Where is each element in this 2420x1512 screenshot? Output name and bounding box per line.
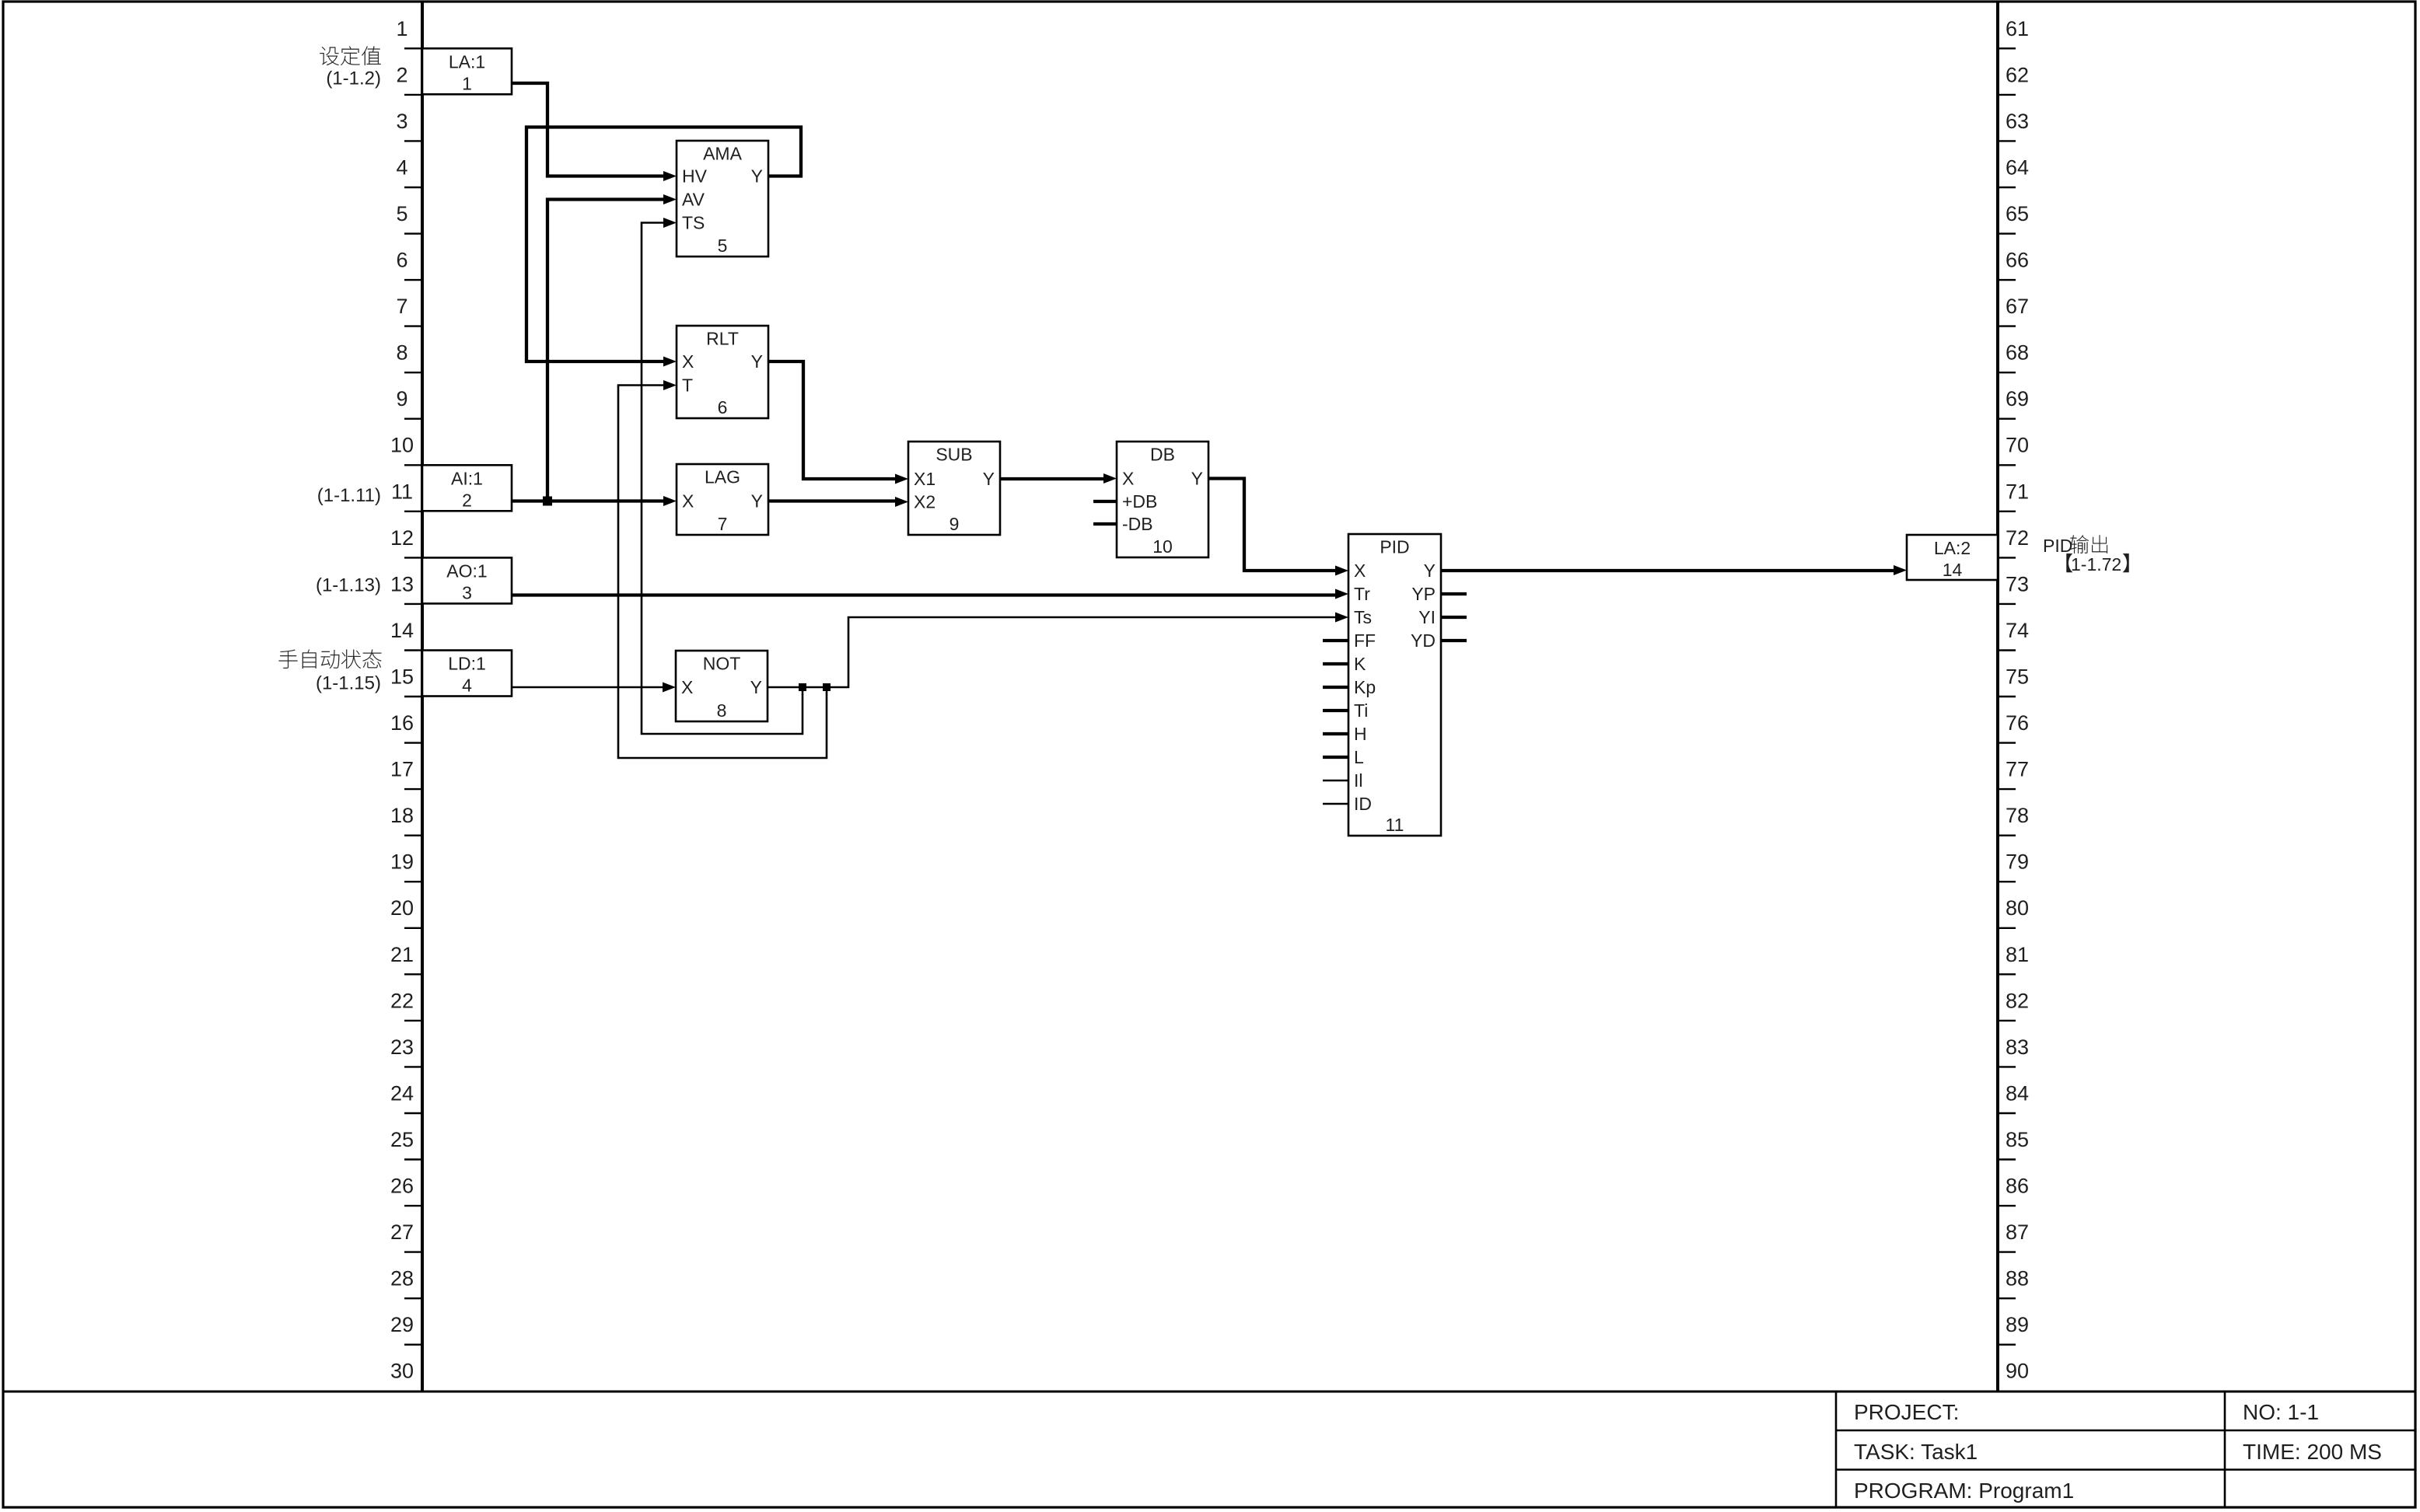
right rail tick row 88/89 (1998, 1297, 2016, 1299)
right rail line (1996, 3, 1999, 1392)
right rail tick row 79/80 (1998, 881, 2016, 882)
svg-text:X: X (1354, 560, 1366, 581)
right rail tick row 77/78 (1998, 788, 2016, 790)
svg-text:26: 26 (390, 1175, 414, 1198)
svg-text:Ts: Ts (1354, 607, 1372, 627)
svg-text:HV: HV (682, 166, 708, 187)
junction AI:1 branch (543, 497, 552, 506)
function block LAG 7 (677, 464, 768, 535)
svg-text:X: X (682, 351, 694, 372)
svg-text:90: 90 (2006, 1360, 2029, 1383)
wire PID.Y -> LA:2 (1441, 569, 1894, 572)
I/O block LA:2 (1907, 535, 1998, 580)
wire SUB.Y -> DB.X (1000, 477, 1103, 480)
svg-text:TIME: 200 MS: TIME: 200 MS (2243, 1440, 2382, 1464)
svg-text:X2: X2 (914, 492, 935, 512)
svg-text:15: 15 (390, 665, 414, 689)
svg-text:Kp: Kp (1354, 677, 1376, 697)
left rail tick row 26/27 (404, 1205, 422, 1206)
svg-text:H: H (1354, 724, 1367, 744)
arrowhead into AMA.TS (663, 218, 677, 228)
svg-text:TASK: Task1: TASK: Task1 (1854, 1440, 1978, 1464)
right rail tick row 80/81 (1998, 927, 2016, 929)
wire LA:1 out -> AMA.HV (512, 83, 663, 176)
svg-text:(1-1.13): (1-1.13) (316, 575, 381, 596)
stub PID.FF unconnected (1323, 639, 1348, 642)
svg-text:LA:1: LA:1 (449, 51, 485, 72)
left rail tick row 3/4 (404, 140, 422, 141)
svg-text:78: 78 (2006, 804, 2029, 827)
svg-text:X: X (682, 491, 694, 512)
arrowhead into LAG.X (663, 496, 677, 506)
left rail tick row 18/19 (404, 834, 422, 836)
right rail tick row 67/68 (1998, 325, 2016, 326)
svg-text:77: 77 (2006, 758, 2029, 781)
svg-text:73: 73 (2006, 572, 2029, 595)
right rail tick row 87/88 (1998, 1251, 2016, 1252)
right rail tick row 89/90 (1998, 1343, 2016, 1345)
svg-text:70: 70 (2006, 434, 2029, 457)
svg-text:16: 16 (390, 711, 414, 735)
svg-text:7: 7 (396, 295, 407, 318)
right rail tick row 71/72 (1998, 511, 2016, 512)
left rail tick row 16/17 (404, 742, 422, 743)
svg-text:Y: Y (1191, 469, 1203, 489)
svg-text:1-1.72: 1-1.72 (2071, 554, 2121, 574)
left rail tick row 5/6 (404, 232, 422, 234)
stub PID.YD unconnected (1441, 639, 1467, 642)
svg-text:86: 86 (2006, 1175, 2029, 1198)
svg-text:Y: Y (750, 677, 762, 697)
arrowhead into DB.X (1103, 473, 1117, 484)
arrowhead into SUB.X1 (895, 474, 908, 484)
svg-text:FF: FF (1354, 630, 1376, 651)
svg-text:17: 17 (390, 758, 414, 781)
svg-text:-DB: -DB (1122, 514, 1153, 534)
svg-text:ID: ID (1354, 794, 1372, 814)
left rail tick row 21/22 (404, 973, 422, 975)
svg-text:89: 89 (2006, 1313, 2029, 1336)
svg-text:AO:1: AO:1 (446, 560, 487, 581)
stub PID.Kp unconnected (1323, 686, 1348, 689)
left rail tick row 17/18 (404, 788, 422, 790)
left rail tick row 27/28 (404, 1251, 422, 1252)
svg-text:5: 5 (396, 202, 407, 225)
svg-text:YI: YI (1418, 607, 1436, 627)
svg-text:29: 29 (390, 1313, 414, 1336)
svg-text:2: 2 (462, 490, 472, 510)
svg-text:10: 10 (390, 434, 414, 457)
svg-text:K: K (1354, 654, 1366, 674)
svg-text:27: 27 (390, 1220, 414, 1244)
svg-text:(1-1.11): (1-1.11) (317, 485, 381, 506)
arrowhead into NOT.X (663, 683, 676, 693)
left rail tick row 14/15 (404, 649, 422, 651)
svg-text:X: X (681, 677, 693, 697)
svg-text:11: 11 (391, 480, 413, 503)
svg-text:Tr: Tr (1354, 584, 1370, 604)
svg-text:Y: Y (1424, 560, 1436, 581)
right rail tick row 81/82 (1998, 973, 2016, 975)
left rail tick row 19/20 (404, 881, 422, 882)
svg-text:LD:1: LD:1 (448, 654, 486, 674)
svg-text:5: 5 (718, 236, 728, 256)
svg-text:+DB: +DB (1122, 491, 1157, 512)
svg-text:81: 81 (2006, 943, 2029, 966)
stub PID.L unconnected (1323, 756, 1348, 759)
svg-text:28: 28 (390, 1267, 414, 1290)
svg-text:SUB: SUB (935, 445, 972, 465)
right rail tick row 76/77 (1998, 742, 2016, 743)
wire LD:1 out -> NOT.X (512, 686, 663, 689)
svg-text:11: 11 (1386, 815, 1404, 835)
I/O block LA:1 (422, 48, 512, 94)
right rail tick row 82/83 (1998, 1020, 2016, 1021)
left rail tick row 7/8 (404, 325, 422, 326)
svg-text:6: 6 (396, 249, 407, 272)
stub PID.Ti unconnected (1323, 709, 1348, 712)
svg-text:25: 25 (390, 1128, 414, 1151)
right rail tick row 61/62 (1998, 47, 2016, 49)
left rail tick row 13/14 (404, 603, 422, 605)
svg-text:DB: DB (1150, 445, 1175, 465)
svg-text:X1: X1 (914, 469, 935, 489)
svg-text:4: 4 (396, 155, 407, 179)
arrowhead into PID.Tr (1335, 589, 1348, 599)
svg-text:83: 83 (2006, 1035, 2029, 1059)
left rail tick row 10/11 (404, 464, 422, 466)
svg-text:30: 30 (390, 1360, 414, 1383)
wire AO:1 out -> PID.Tr (512, 593, 1335, 596)
svg-text:PID: PID (1380, 537, 1409, 557)
right rail tick row 65/66 (1998, 232, 2016, 234)
svg-text:7: 7 (718, 514, 728, 534)
wire NOT.Y branch -> AMA.TS (642, 223, 803, 735)
svg-text:87: 87 (2006, 1220, 2029, 1244)
left rail tick row 28/29 (404, 1297, 422, 1299)
svg-text:10: 10 (1152, 536, 1173, 557)
svg-text:64: 64 (2006, 155, 2029, 179)
svg-text:PID: PID (2043, 536, 2072, 556)
right rail tick row 69/70 (1998, 418, 2016, 420)
svg-text:1: 1 (462, 73, 472, 93)
wire RLT.Y -> SUB.X1 (768, 361, 895, 479)
svg-text:13: 13 (390, 572, 414, 595)
left rail tick row 4/5 (404, 187, 422, 188)
svg-text:12: 12 (390, 526, 414, 550)
title block row line 1 (1836, 1430, 2415, 1432)
svg-text:Il: Il (1354, 770, 1363, 791)
right rail tick row 70/71 (1998, 464, 2016, 466)
svg-text:74: 74 (2006, 619, 2029, 642)
wire LAG.Y -> SUB.X2 (768, 499, 895, 502)
svg-text:8: 8 (396, 341, 407, 365)
left rail tick row 29/30 (404, 1343, 422, 1345)
svg-text:L: L (1354, 747, 1364, 767)
svg-text:72: 72 (2006, 526, 2029, 550)
function block NOT 8 (676, 651, 768, 721)
stub DB.+DB unconnected (1093, 500, 1117, 503)
arrowhead into RLT.T (663, 380, 677, 390)
arrowhead into AMA.AV (663, 194, 677, 204)
svg-text:PROGRAM: Program1: PROGRAM: Program1 (1854, 1479, 2074, 1503)
label node 手自动状态 (1-1.15) (279, 650, 298, 669)
svg-text:AMA: AMA (703, 144, 743, 164)
svg-text:21: 21 (390, 943, 414, 966)
svg-text:14: 14 (1943, 560, 1963, 580)
svg-text:4: 4 (462, 676, 472, 696)
right rail tick row 86/87 (1998, 1205, 2016, 1206)
stub PID.YI unconnected (1441, 616, 1467, 619)
right rail tick row 72/73 (1998, 557, 2016, 558)
function block PID 11 (1348, 534, 1441, 836)
svg-text:67: 67 (2006, 295, 2029, 318)
stub PID.YP unconnected (1441, 592, 1467, 595)
left rail tick row 1/2 (404, 47, 422, 49)
svg-text:TS: TS (682, 213, 705, 233)
svg-text:LA:2: LA:2 (1934, 538, 1971, 558)
wire AI:1 branch -> AMA.AV (547, 200, 663, 501)
svg-text:84: 84 (2006, 1081, 2029, 1105)
label node 设定值 (1-1.2) (320, 47, 338, 65)
svg-text:24: 24 (390, 1081, 414, 1105)
function block DB 10 (1117, 442, 1208, 557)
svg-text:20: 20 (390, 896, 414, 920)
function block AMA 5 (677, 141, 768, 257)
svg-text:NO: 1-1: NO: 1-1 (2243, 1400, 2319, 1424)
svg-text:AV: AV (682, 190, 705, 210)
arrowhead into AMA.HV (663, 171, 677, 181)
svg-text:88: 88 (2006, 1267, 2029, 1290)
right rail tick row 84/85 (1998, 1112, 2016, 1114)
wire NOT.Y branch -> RLT.T (618, 386, 827, 759)
svg-text:9: 9 (396, 387, 407, 410)
left rail tick row 23/24 (404, 1066, 422, 1067)
stub DB.-DB unconnected (1093, 522, 1117, 526)
bottom band separator line (3, 1391, 2415, 1393)
svg-text:80: 80 (2006, 896, 2029, 920)
right rail tick row 68/69 (1998, 372, 2016, 373)
wire AI:1 out -> LAG.X (512, 499, 663, 502)
svg-text:Y: Y (751, 351, 763, 372)
svg-text:AI:1: AI:1 (451, 468, 483, 488)
svg-text:61: 61 (2006, 17, 2029, 40)
label node 【1-1.72】 (2066, 553, 2072, 572)
stub PID.Il unconnected (1323, 780, 1348, 782)
svg-text:85: 85 (2006, 1128, 2029, 1151)
svg-text:75: 75 (2006, 665, 2029, 689)
left rail tick row 9/10 (404, 418, 422, 420)
svg-text:(1-1.2): (1-1.2) (326, 68, 381, 89)
wire NOT.Y -> PID.Ts (768, 617, 1335, 687)
right rail tick row 73/74 (1998, 603, 2016, 605)
left rail tick row 6/7 (404, 279, 422, 281)
svg-text:23: 23 (390, 1035, 414, 1059)
right rail tick row 64/65 (1998, 187, 2016, 188)
left rail tick row 24/25 (404, 1112, 422, 1114)
svg-text:76: 76 (2006, 711, 2029, 735)
stub PID.H unconnected (1323, 732, 1348, 735)
wire AMA.Y feedback -> RLT.X (526, 127, 801, 362)
svg-text:8: 8 (717, 700, 727, 721)
svg-text:6: 6 (718, 397, 728, 417)
left rail tick row 15/16 (404, 696, 422, 697)
title block left border (1835, 1392, 1838, 1507)
junction NOT.Y branch 1 (799, 683, 806, 691)
right rail tick row 83/84 (1998, 1066, 2016, 1067)
svg-text:18: 18 (390, 804, 414, 827)
I/O block AO:1 (422, 557, 512, 603)
arrowhead into LA:2 (1894, 565, 1907, 575)
left rail tick row 22/23 (404, 1020, 422, 1021)
I/O block LD:1 (422, 651, 512, 697)
svg-text:Ti: Ti (1354, 700, 1368, 721)
right rail tick row 78/79 (1998, 834, 2016, 836)
svg-text:69: 69 (2006, 387, 2029, 410)
left rail tick row 11/12 (404, 511, 422, 512)
svg-text:YP: YP (1411, 584, 1436, 604)
left rail tick row 12/13 (404, 557, 422, 558)
right rail tick row 62/63 (1998, 94, 2016, 96)
stub PID.K unconnected (1323, 662, 1348, 665)
title block row line 2 (1836, 1468, 2415, 1471)
svg-text:65: 65 (2006, 202, 2029, 225)
arrowhead into SUB.X2 (895, 497, 908, 507)
svg-text:LAG: LAG (705, 467, 740, 487)
svg-text:79: 79 (2006, 850, 2029, 874)
I/O block AI:1 (422, 465, 512, 511)
svg-text:3: 3 (396, 110, 407, 133)
stub PID.ID unconnected (1323, 803, 1348, 805)
svg-text:82: 82 (2006, 989, 2029, 1012)
svg-text:(1-1.15): (1-1.15) (316, 673, 381, 694)
svg-text:NOT: NOT (703, 654, 741, 674)
title block column divider (2224, 1392, 2226, 1507)
svg-text:1: 1 (396, 17, 407, 40)
left rail tick row 25/26 (404, 1158, 422, 1160)
arrowhead into RLT.X (663, 357, 677, 367)
svg-text:3: 3 (462, 582, 472, 602)
left rail tick row 8/9 (404, 372, 422, 373)
svg-text:63: 63 (2006, 110, 2029, 133)
svg-text:X: X (1122, 469, 1134, 489)
arrowhead into PID.Ts (1335, 613, 1348, 623)
svg-text:T: T (682, 375, 693, 396)
right rail tick row 75/76 (1998, 696, 2016, 697)
svg-text:71: 71 (2006, 480, 2029, 503)
function block SUB 9 (908, 442, 1000, 535)
svg-text:9: 9 (949, 514, 960, 534)
svg-text:14: 14 (390, 619, 414, 642)
right rail tick row 85/86 (1998, 1158, 2016, 1160)
right rail tick row 66/67 (1998, 279, 2016, 281)
arrowhead into PID.X (1335, 566, 1348, 576)
svg-text:Y: Y (751, 491, 763, 512)
svg-text:62: 62 (2006, 63, 2029, 86)
svg-text:68: 68 (2006, 341, 2029, 365)
wire DB.Y -> PID.X (1208, 479, 1335, 571)
svg-text:RLT: RLT (706, 329, 739, 349)
svg-text:Y: Y (751, 166, 763, 187)
right rail tick row 74/75 (1998, 649, 2016, 651)
svg-text:2: 2 (396, 63, 407, 86)
svg-text:66: 66 (2006, 249, 2029, 272)
left rail line (421, 3, 424, 1392)
svg-text:22: 22 (390, 989, 414, 1012)
left rail tick row 2/3 (404, 94, 422, 96)
function block RLT 6 (677, 326, 768, 418)
svg-text:Y: Y (983, 469, 995, 489)
svg-text:PROJECT:: PROJECT: (1854, 1400, 1959, 1424)
right rail tick row 63/64 (1998, 140, 2016, 141)
svg-text:YD: YD (1411, 630, 1436, 651)
svg-text:19: 19 (390, 850, 414, 874)
junction NOT.Y branch 2 (823, 683, 831, 691)
left rail tick row 20/21 (404, 927, 422, 929)
